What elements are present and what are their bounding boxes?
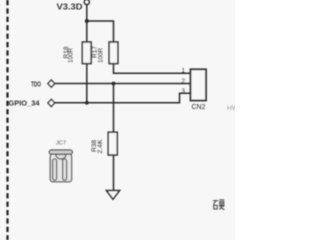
resistor R38 (91, 132, 117, 155)
port TDO (31, 79, 55, 88)
wire branch to R17 (87, 21, 114, 42)
svg-text:GPIO_34: GPIO_34 (9, 99, 41, 108)
jumper JC7 (49, 140, 72, 182)
svg-text:2.4K: 2.4K (97, 139, 104, 154)
sheet title text (cropped) 硬 (213, 200, 225, 210)
resistor R18 (63, 42, 91, 64)
svg-text:3: 3 (182, 88, 186, 95)
wire R17 to CN2 pin1 (114, 64, 191, 74)
svg-text:1: 1 (182, 67, 186, 74)
junction (85, 19, 89, 23)
port GPIO_34 (9, 99, 55, 108)
connector CN2 (191, 69, 207, 111)
sheet border (dashed, left edge) (6, 0, 8, 240)
svg-text:CN2: CN2 (192, 102, 206, 111)
wire TDO to CN2 pin2 (55, 83, 191, 85)
junction TDO / R38 (112, 82, 116, 86)
wire R18 down to GPIO_34 net (86, 64, 88, 103)
wire TDO junction down to R38 (113, 84, 115, 134)
svg-text:HW: HW (227, 105, 235, 112)
svg-text:V3.3D: V3.3D (57, 2, 83, 11)
svg-text:JC7: JC7 (56, 140, 66, 146)
power net V3.3D (57, 2, 83, 11)
svg-text:100R: 100R (68, 48, 75, 63)
terminal circle V3.3D (84, 0, 89, 5)
wire V3.3D down to R18 (86, 5, 88, 42)
ground (106, 191, 119, 200)
resistor R17 (91, 42, 118, 64)
svg-text:100R: 100R (97, 48, 104, 63)
junction R18 / GPIO_34 (85, 101, 89, 105)
wire GPIO_34 to CN2 pin3 (55, 93, 191, 103)
wire R38 to ground (113, 156, 115, 191)
svg-text:2: 2 (182, 78, 186, 85)
svg-text:TDO: TDO (31, 79, 41, 88)
